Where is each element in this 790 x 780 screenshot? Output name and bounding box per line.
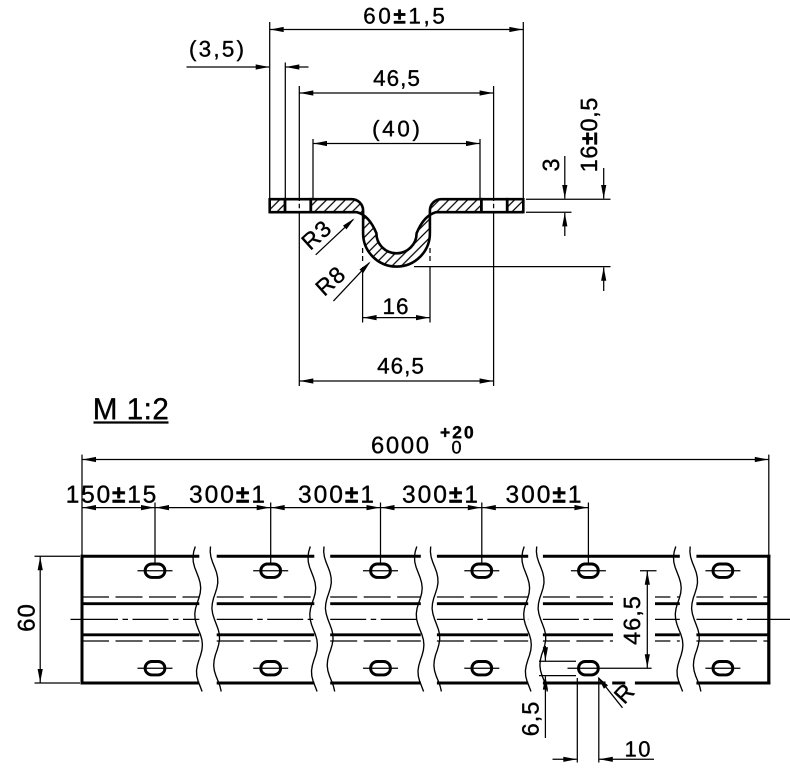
slotted hole row1 #5 bbox=[579, 564, 599, 577]
slotted hole row2 #1 bbox=[145, 662, 165, 675]
extension lines slot width bbox=[539, 660, 576, 662]
channel wall edge upper bbox=[82, 602, 199, 605]
extension line bottom of flat bbox=[526, 211, 572, 213]
dimension 300±1 (x4) bbox=[190, 485, 264, 502]
extension/centre line left slot bbox=[298, 86, 300, 197]
leader R bbox=[599, 678, 623, 708]
profile inner contour bbox=[270, 212, 524, 253]
slotted hole row2 #3 bbox=[371, 662, 391, 675]
dimension 46,5 top bbox=[299, 92, 493, 94]
dimension 60±1,5 bbox=[270, 29, 524, 31]
dimension 46,5 rows bbox=[613, 593, 655, 648]
leader R8 bbox=[333, 263, 369, 301]
extension line trough bottom bbox=[414, 266, 611, 268]
profile right end face bbox=[522, 198, 525, 213]
channel wall edge lower bbox=[82, 633, 199, 636]
slotted hole row1 #4 bbox=[472, 564, 492, 577]
slotted hole row2 #4 bbox=[472, 662, 492, 675]
dimension (3,5) bbox=[187, 66, 270, 68]
break line pair 1 bbox=[193, 547, 202, 692]
extension stub top bbox=[640, 570, 657, 572]
slotted hole row2 #5 bbox=[579, 662, 599, 675]
slot hole (left) cut through section bbox=[284, 197, 311, 215]
extension line (40) right bbox=[479, 139, 481, 198]
dimension 46,5 bottom bbox=[299, 380, 493, 382]
break line pair 4 bbox=[522, 547, 531, 692]
rail centre line bbox=[71, 618, 83, 620]
rail left end face bbox=[81, 555, 84, 685]
extension line left end bbox=[269, 22, 271, 198]
slot hole (right) cut through section bbox=[481, 197, 508, 215]
extension lines rail width bbox=[35, 555, 81, 557]
hole pitch dimension arrows bbox=[141, 505, 155, 510]
channel tangent hidden line upper bbox=[82, 596, 199, 598]
slotted hole row1 #6 bbox=[713, 564, 733, 577]
right slot edges in section bbox=[480, 198, 483, 214]
profile left end face bbox=[268, 198, 271, 213]
dimension 16±0,5 (depth) bbox=[603, 168, 605, 199]
extension line top surface bbox=[526, 198, 611, 200]
extension line hole column x=380.5 bbox=[380, 503, 382, 563]
dimension 16 bbox=[363, 317, 430, 319]
slotted hole row1 #3 bbox=[371, 564, 391, 577]
dimension (40) bbox=[313, 143, 480, 145]
break line pair 5 bbox=[674, 547, 683, 692]
extension line slot edge bbox=[284, 63, 286, 199]
scale label M 1:2 bbox=[95, 398, 167, 419]
rail top edge bbox=[81, 555, 200, 558]
hole pitch dimension line bbox=[82, 507, 588, 509]
extension line right end bbox=[522, 22, 524, 198]
dimension 3 (thickness) bbox=[564, 156, 566, 199]
dimension 6000 +20 0 bbox=[82, 459, 769, 461]
slotted hole row1 #1 bbox=[145, 564, 165, 577]
extension line hole column x=155.0 bbox=[154, 503, 156, 563]
profile outer contour bbox=[270, 199, 524, 266]
hatched sheet material of hat-profile cross-section bbox=[270, 199, 524, 266]
break line pair 2 bbox=[308, 547, 317, 692]
slotted hole row2 #6 bbox=[713, 662, 733, 675]
channel tangent hidden line lower bbox=[82, 640, 199, 642]
extension line rail left bbox=[81, 455, 83, 555]
extension/centre line right slot bbox=[493, 86, 495, 197]
left slot edges in section bbox=[284, 198, 287, 214]
dimension 150±15 bbox=[68, 485, 156, 502]
slotted hole row2 #2 bbox=[261, 662, 281, 675]
extension line (40) left bbox=[312, 139, 314, 198]
slotted hole row1 #2 bbox=[261, 564, 281, 577]
extension line hole column x=481.8 bbox=[481, 503, 483, 563]
extension line hole column x=588.4 bbox=[587, 503, 589, 563]
dimension 10 bbox=[553, 758, 577, 760]
extension line trough left bbox=[362, 248, 364, 261]
extension line trough right bbox=[429, 248, 431, 261]
dimension 6,5 bbox=[544, 646, 546, 661]
extension line hole column x=270.7 bbox=[270, 503, 272, 563]
extension lines slot length bbox=[576, 678, 578, 763]
break line pair 3 bbox=[415, 547, 424, 692]
dimension 60 bbox=[39, 556, 41, 683]
leader R3 bbox=[316, 220, 354, 255]
extension line rail right bbox=[768, 455, 770, 555]
rail bottom edge bbox=[81, 682, 200, 685]
rail right end face bbox=[767, 555, 770, 685]
